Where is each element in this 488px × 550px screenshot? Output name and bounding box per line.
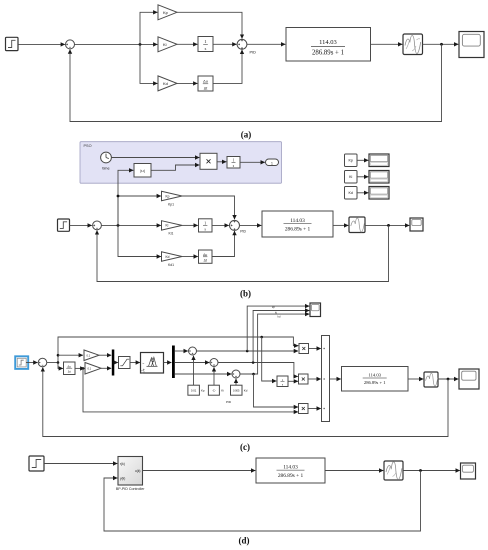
constant Ki (b)	[345, 171, 358, 184]
svg-text:Kd: Kd	[163, 81, 168, 86]
svg-text:Ki: Ki	[166, 224, 169, 228]
svg-text:(d): (d)	[239, 536, 250, 546]
svg-text:r(k): r(k)	[120, 462, 125, 466]
wire step to sum (a)	[18, 43, 65, 45]
wire Ki1 to integrator (b)	[182, 224, 198, 226]
svg-text:PSO: PSO	[84, 144, 92, 148]
wire branch down to Kd1 (b)	[118, 225, 161, 256]
gain Kd (a)	[158, 76, 177, 91]
svg-text:Kp: Kp	[201, 389, 205, 393]
node error e main (c)	[57, 361, 60, 364]
svg-text:(c): (c)	[240, 442, 250, 452]
wire noise to scope (c)	[438, 378, 458, 380]
gain Ki (a)	[158, 37, 177, 52]
display block 2 (b)	[369, 171, 389, 184]
svg-text:Δu: Δu	[67, 364, 71, 368]
wire e to integrator (c)	[262, 337, 277, 381]
svg-text:Ki: Ki	[221, 389, 224, 393]
scope block right (c)	[459, 369, 479, 389]
wire product to integrator (b)	[217, 161, 226, 163]
integrator 1/s (a)	[198, 37, 213, 52]
wire controller to plant (d)	[143, 470, 256, 472]
feedback wire (d)	[104, 471, 421, 532]
wire integrator to product2 (c)	[288, 380, 298, 382]
transfer function plant (b)	[262, 211, 333, 237]
svg-text:kd: kd	[278, 314, 281, 318]
wire derivative to gain2 (c)	[75, 367, 84, 369]
svg-text:286.89s + 1: 286.89s + 1	[312, 50, 344, 57]
wire branch down to Kd gain (a)	[140, 44, 157, 83]
scope block (a)	[459, 32, 484, 58]
wire sum to branch (c)	[47, 362, 58, 364]
add block (c)	[322, 336, 330, 422]
derivative du/dt block (a)	[198, 76, 213, 91]
out port capsule (b)	[266, 159, 279, 166]
constant Kd (b)	[345, 187, 358, 200]
sum junction PID (a)	[237, 39, 247, 49]
node e to integrator tap (c)	[260, 336, 263, 339]
node kp scope tap (c)	[246, 350, 249, 353]
svg-text:114.03: 114.03	[283, 464, 298, 470]
node kd product tap (c)	[252, 373, 255, 376]
product1 kp*e (c)	[299, 344, 309, 354]
wire Ki to display2 (b)	[357, 176, 368, 178]
gain Kd1 (b)	[162, 252, 183, 267]
wire noise to scope (d)	[403, 470, 460, 472]
svg-text:|u|: |u|	[140, 168, 144, 173]
wire error signal up into abs (b)	[118, 170, 133, 225]
wire product3 to add (c)	[308, 408, 321, 410]
svg-text:0.005: 0.005	[233, 389, 240, 393]
wire sum to Ki gain with branch node (a)	[75, 43, 158, 45]
svg-text:Kd: Kd	[244, 389, 248, 393]
integrator 1/s (c)	[277, 376, 288, 387]
wire error to derivative (c)	[58, 363, 63, 369]
svg-text:114.03: 114.03	[368, 373, 381, 378]
wire PID sum to plant (b)	[240, 224, 262, 226]
constant Kp (b)	[345, 154, 358, 167]
wire error up over to product1 (c)	[58, 337, 298, 363]
svg-text:Kd: Kd	[166, 255, 170, 259]
wire kp line to product1 (c)	[197, 350, 299, 352]
wire kp tap to scope (c)	[247, 306, 309, 351]
wire sum to Ki1 gain (b)	[101, 224, 160, 226]
svg-text:Δu: Δu	[203, 253, 207, 257]
constant Ki0 -C- (c)	[208, 385, 224, 395]
wire derivative to PID sum bottom (a)	[213, 50, 242, 84]
feedback wire (a)	[70, 44, 442, 121]
svg-text:BP-PID Controller: BP-PID Controller	[116, 487, 145, 491]
svg-text:Kp: Kp	[348, 159, 352, 163]
wire demux to sum kd (c)	[175, 373, 232, 375]
svg-text:114.03: 114.03	[319, 39, 337, 46]
step input block (c)	[17, 358, 26, 367]
gain Kp (a)	[158, 5, 177, 20]
wire plant to noise block (a)	[371, 43, 403, 45]
wire branch up to Kp1 (b)	[118, 196, 161, 225]
svg-text:0.1: 0.1	[87, 354, 91, 358]
wire clock to product (b)	[111, 157, 199, 159]
wire gain1 to mux (c)	[99, 354, 111, 356]
svg-text:PID: PID	[240, 229, 246, 233]
derivative du/dt block (c)	[64, 362, 76, 375]
node branch point (a)	[139, 43, 142, 46]
svg-text:-C-: -C-	[212, 389, 216, 393]
svg-text:Kp: Kp	[163, 10, 169, 15]
integrator 1/s (PSO)	[227, 157, 240, 169]
svg-text:1: 1	[204, 222, 206, 226]
clock block (b)	[101, 152, 112, 170]
feedback wire (c)	[43, 367, 448, 436]
wire noise to scope (a)	[423, 43, 459, 45]
wire delta-e to product3 (c)	[83, 368, 298, 412]
wire Kp1 to PID sum top (b)	[182, 196, 235, 219]
node error branch (b)	[117, 224, 120, 227]
transfer function plant (c)	[342, 367, 409, 392]
wire error to gain1 (c)	[58, 354, 83, 356]
sum junction S1 (c)	[38, 358, 47, 367]
transfer function plant (a)	[286, 28, 371, 62]
svg-text:Δu: Δu	[203, 80, 208, 84]
svg-text:1: 1	[204, 39, 206, 44]
wire Kp0 to sum kp (c)	[193, 356, 195, 385]
wire Kd0 to sum kd (c)	[235, 379, 237, 385]
wire Kd to derivative (a)	[177, 82, 197, 84]
wire ki line to product2 (c)	[218, 363, 298, 377]
wire product1 to add (c)	[309, 348, 321, 350]
selection frame around step (c)	[15, 356, 28, 369]
derivative du/dt block (b)	[199, 250, 213, 263]
wire add to plant (c)	[330, 378, 341, 380]
band-limited noise block (d)	[384, 461, 403, 480]
svg-text:Δt: Δt	[204, 259, 207, 263]
wire Kp to display1 (b)	[357, 159, 368, 161]
scope block (d)	[461, 463, 476, 479]
node delta-e tap (c)	[82, 367, 85, 370]
sum junction S1 (b)	[93, 221, 102, 230]
wire step to controller r(k) (d)	[44, 463, 117, 465]
scope block params (c)	[310, 303, 321, 317]
wire demux to sum kp (c)	[175, 350, 188, 352]
constant Kp0 0.01 (c)	[188, 385, 205, 395]
wire step to sum (c)	[26, 362, 38, 364]
wire abs to product (b)	[151, 165, 199, 170]
gain Ki1 (b)	[162, 221, 183, 236]
step input block (b)	[58, 219, 70, 231]
wire noise to scope (b)	[365, 224, 409, 226]
constant Kd0 0.005 (c)	[231, 385, 248, 395]
wire integrator to PID sum (a)	[213, 43, 237, 45]
product block (b)	[200, 153, 217, 169]
node feedback tap (b)	[387, 224, 390, 227]
svg-text:286.89s + 1: 286.89s + 1	[278, 473, 304, 479]
svg-text:PID: PID	[250, 51, 257, 55]
wire demux to sum ki (c)	[175, 362, 210, 364]
wire integrator to out port (b)	[240, 161, 265, 163]
svg-text:kp: kp	[272, 305, 275, 309]
wire integrator to PID sum (b)	[212, 224, 229, 226]
integrator 1/s (b)	[199, 219, 213, 232]
wire plant to noise (c)	[408, 378, 423, 380]
gain kde (c)	[85, 363, 101, 375]
svg-text:u(k): u(k)	[135, 469, 141, 473]
step input block (d)	[29, 456, 44, 471]
svg-text:Δt: Δt	[68, 370, 71, 374]
wire PID sum to plant (a)	[247, 43, 285, 45]
svg-text:(b): (b)	[240, 289, 251, 299]
band-limited noise block (c)	[424, 372, 438, 387]
node feedback tap (a)	[440, 43, 443, 46]
svg-text:Ki: Ki	[349, 175, 352, 179]
svg-text:0.1: 0.1	[88, 367, 92, 371]
transfer function plant (d)	[256, 458, 325, 483]
wire plant to noise (d)	[325, 470, 383, 472]
svg-text:PID: PID	[226, 400, 232, 404]
product2 ki*int (c)	[299, 374, 309, 384]
demux bar (c)	[172, 346, 175, 379]
svg-text:Kd1: Kd1	[168, 263, 174, 267]
band-limited noise block (b)	[349, 217, 365, 233]
node error e tee (c)	[57, 354, 60, 357]
svg-text:(a): (a)	[241, 129, 252, 139]
wire fuzzy to demux (c)	[164, 362, 172, 364]
wire Kp to PID sum top (a)	[177, 12, 242, 38]
wire gain2 to mux (c)	[101, 367, 111, 369]
wire ki tap to scope (c)	[253, 311, 309, 363]
svg-text:time: time	[102, 166, 109, 170]
mux bar (c)	[112, 350, 115, 376]
wire Ki0 to sum ki (c)	[213, 367, 215, 385]
step input block (a)	[6, 37, 19, 50]
wire kd down to product3 (c)	[254, 374, 299, 407]
svg-text:Kd: Kd	[348, 191, 352, 195]
svg-text:286.89s + 1: 286.89s + 1	[285, 227, 311, 233]
gain Kp1 (b)	[162, 191, 183, 206]
node feedback tap (c)	[447, 378, 450, 381]
wire plant to noise (b)	[333, 224, 348, 226]
wire Ki to integrator (a)	[177, 43, 197, 45]
svg-text:286.89s + 1: 286.89s + 1	[364, 380, 386, 385]
node feedback tap (d)	[419, 469, 422, 472]
sum junction S1 (a)	[66, 40, 75, 49]
node Kp1 tee (b)	[117, 195, 120, 198]
svg-text:s: s	[205, 46, 207, 51]
node ki scope tap (c)	[252, 361, 255, 364]
sum junction PID (b)	[230, 220, 240, 230]
sum kd (c)	[232, 370, 240, 378]
svg-text:114.03: 114.03	[290, 218, 305, 224]
svg-text:y(k): y(k)	[120, 476, 125, 480]
band-limited noise block (a)	[403, 34, 423, 55]
wire Kd to display3 (b)	[357, 192, 368, 194]
wire product2 to add (c)	[308, 378, 321, 380]
PSO annotation area fill	[80, 142, 282, 184]
wire saturation to fuzzy (c)	[130, 362, 140, 364]
wire step to sum (b)	[70, 224, 92, 226]
saturation block (c)	[119, 357, 131, 369]
display block 1 (b)	[369, 154, 389, 167]
wire kd line to scope corner (c)	[240, 314, 309, 374]
BP-PID controller block (d)	[116, 457, 145, 491]
display block 3 (b)	[369, 187, 389, 200]
gain ke (c)	[84, 350, 99, 361]
svg-text:Ki1: Ki1	[169, 232, 174, 236]
product3 kd*de (c)	[299, 404, 309, 414]
fuzzy logic controller block (c)	[141, 353, 164, 374]
wire derivative to PID sum bottom (b)	[212, 231, 235, 257]
abs block |u| (b)	[134, 164, 151, 178]
svg-text:0.01: 0.01	[191, 389, 197, 393]
wire mux to saturation (c)	[114, 362, 118, 364]
wire branch up to Kp gain (a)	[140, 12, 157, 44]
sum ki (c)	[210, 359, 218, 367]
feedback wire (b)	[97, 225, 389, 281]
svg-text:1: 1	[271, 161, 273, 165]
sum kp (c)	[189, 347, 197, 355]
svg-text:Kp1: Kp1	[168, 202, 174, 206]
svg-text:Kp: Kp	[166, 194, 170, 198]
wire Kd1 to derivative (b)	[182, 256, 198, 258]
scope block (b)	[410, 218, 423, 231]
svg-text:Ki: Ki	[163, 42, 167, 47]
